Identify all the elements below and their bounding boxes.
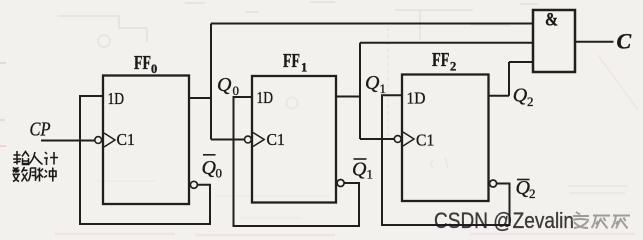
svg-text:Q: Q bbox=[513, 85, 528, 107]
灰 bbox=[612, 216, 631, 229]
clock edge triangle FF1 bbox=[253, 133, 264, 147]
flip-flop FF2 bbox=[402, 75, 489, 202]
node Q̄1 bbox=[352, 159, 373, 182]
svg-text:Q: Q bbox=[202, 157, 217, 179]
svg-text:C1: C1 bbox=[117, 130, 135, 149]
clock bubble FF2 bbox=[394, 136, 401, 143]
wire FF1 feedback Q̄1 to 1D bbox=[234, 97, 360, 226]
AND gate bbox=[533, 10, 575, 72]
watermark CSDN @Zevalin爱灰灰 bbox=[434, 208, 630, 233]
wire AND output to C bbox=[575, 41, 614, 43]
svg-text:1D: 1D bbox=[108, 89, 125, 108]
svg-text:1: 1 bbox=[380, 81, 387, 96]
clock edge triangle FF0 bbox=[104, 133, 115, 147]
svg-text:2: 2 bbox=[450, 60, 456, 74]
node Q̄0 bbox=[202, 157, 223, 181]
flip-flop FF1 bbox=[252, 76, 336, 203]
clock edge triangle FF2 bbox=[403, 132, 414, 146]
node Q0 bbox=[217, 74, 239, 98]
svg-text:0: 0 bbox=[233, 83, 240, 98]
label FF0 bbox=[134, 53, 157, 76]
计 bbox=[44, 152, 48, 165]
svg-text:1: 1 bbox=[301, 61, 307, 75]
flip-flop FF0 bbox=[103, 76, 189, 205]
wire Q2 riser to AND input 3 bbox=[508, 62, 510, 96]
脉 bbox=[28, 168, 35, 181]
node Q2 bbox=[513, 85, 534, 110]
node Q1 bbox=[365, 72, 386, 96]
svg-text:C: C bbox=[617, 29, 632, 54]
ghost bleed-through background (decorative) bbox=[57, 2, 628, 218]
svg-text:FF: FF bbox=[283, 51, 300, 72]
wire Q0 output bbox=[189, 97, 211, 99]
wire Q1 riser to AND input 2 bbox=[359, 43, 361, 139]
svg-text:CSDN @Zevalin: CSDN @Zevalin bbox=[434, 208, 574, 233]
wire CP to FF0 clock bbox=[41, 140, 95, 142]
svg-text:C1: C1 bbox=[267, 130, 285, 149]
output bubble Q̄2 bbox=[490, 180, 497, 187]
wire AND gate input 3 bbox=[509, 61, 533, 63]
wire Q0 riser to AND input 1 bbox=[210, 24, 212, 140]
svg-text:1D: 1D bbox=[257, 88, 274, 107]
wire Q1 to FF2 clock bbox=[360, 138, 394, 140]
数 bbox=[13, 167, 21, 181]
svg-text:1D: 1D bbox=[407, 89, 426, 108]
svg-text:2: 2 bbox=[529, 186, 536, 201]
input caption 输入计数脉冲 (hand-drawn glyphs) bbox=[13, 151, 59, 182]
爱 bbox=[572, 212, 589, 228]
冲 bbox=[44, 170, 47, 178]
output bubble Q̄0 bbox=[190, 181, 197, 188]
svg-text:Q: Q bbox=[217, 74, 232, 96]
wire Q2 output bbox=[489, 95, 510, 97]
svg-text:Q: Q bbox=[365, 72, 380, 94]
入 bbox=[29, 152, 43, 165]
wire AND gate input 1 bbox=[211, 23, 533, 25]
svg-text:Q: Q bbox=[352, 159, 367, 181]
label FF2 bbox=[432, 50, 456, 74]
svg-text:C1: C1 bbox=[416, 131, 434, 150]
svg-text:&: & bbox=[545, 10, 558, 31]
svg-text:FF: FF bbox=[432, 50, 450, 71]
输 bbox=[13, 151, 21, 165]
wire FF0 feedback Q̄0 to 1D bbox=[80, 96, 210, 224]
wire Q1 output bbox=[336, 96, 360, 98]
svg-text:0: 0 bbox=[216, 166, 223, 181]
output bubble Q̄1 bbox=[337, 180, 344, 187]
wire AND gate input 2 bbox=[360, 42, 533, 44]
label FF1 bbox=[283, 51, 307, 75]
svg-text:1: 1 bbox=[367, 167, 374, 182]
灰 bbox=[592, 216, 611, 229]
攵 of 数 bbox=[22, 167, 28, 182]
svg-text:FF: FF bbox=[134, 53, 151, 74]
svg-text:2: 2 bbox=[527, 94, 534, 109]
clock bubble FF1 bbox=[245, 136, 252, 143]
wire Q0 to FF1 clock bbox=[211, 139, 244, 141]
node Q̄2 bbox=[516, 177, 536, 201]
wire FF2 feedback Q̄2 to 1D bbox=[382, 95, 510, 225]
svg-text:CP: CP bbox=[30, 120, 51, 141]
svg-text:0: 0 bbox=[151, 62, 157, 76]
clock bubble FF0 bbox=[95, 137, 102, 144]
